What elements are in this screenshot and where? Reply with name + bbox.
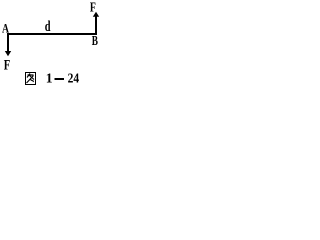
arrowhead: left force down (5, 51, 11, 56)
caption glyph 图 (26, 73, 36, 85)
wire: left force stem (7, 33, 9, 51)
caption dash (55, 78, 65, 80)
svg-text:24: 24 (68, 71, 80, 86)
svg-text:A: A (2, 22, 9, 36)
arrowhead: right force up (93, 12, 99, 17)
wire: beam AB horizontal line (7, 33, 97, 35)
svg-text:1: 1 (46, 71, 53, 86)
svg-text:F: F (90, 0, 96, 15)
wire: right force stem (95, 15, 97, 35)
svg-text:B: B (92, 34, 98, 49)
svg-text:d: d (45, 19, 51, 35)
svg-text:F: F (4, 57, 11, 73)
